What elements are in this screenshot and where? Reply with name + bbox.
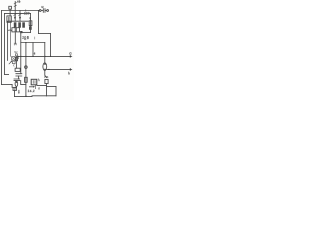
wire below box A [15, 61, 17, 68]
wire left bus V4 [9, 22, 11, 57]
secondary winding box S1 [12, 28, 15, 32]
wire H8 branch [47, 86, 57, 88]
tick on L1 [25, 10, 27, 12]
primary coil bumps [8, 29, 11, 32]
wire top mains line L2 [5, 12, 31, 14]
wire meter to resistor [45, 70, 47, 77]
transformer T1 core line [7, 20, 28, 22]
wire V11 from L1 junction [38, 11, 40, 34]
junction dot bottom [25, 96, 26, 97]
wire H3 [21, 31, 30, 33]
label 220 [24, 12, 29, 14]
transformer T1 top leads [9, 11, 11, 16]
indicator circle on V9 [25, 66, 28, 69]
lamp box with X [12, 57, 16, 61]
wire resistor to bottom bus [46, 84, 48, 96]
label h [38, 79, 39, 81]
wire left bus V3 [7, 22, 9, 61]
label 28 B [23, 36, 29, 40]
capacitor C4 plates [14, 79, 20, 80]
output line H6 [47, 68, 71, 70]
junction blob node B [20, 31, 22, 33]
wire V6 [14, 31, 16, 43]
switch arm arrow [9, 62, 11, 64]
label above connector [42, 6, 44, 8]
terminal arrow T1 [69, 55, 71, 57]
label minus [69, 72, 70, 74]
dark block at V7 bottom [29, 26, 32, 30]
wire V10 drop [32, 43, 34, 57]
tick mark [34, 37, 36, 39]
shunt box R6 [31, 79, 37, 85]
contact box on V6 [16, 54, 18, 56]
label 4 [34, 52, 35, 54]
terminal arrow T2 [69, 68, 71, 70]
wire V9 drop [25, 43, 27, 97]
wire V14 [55, 87, 57, 96]
junction dots [18, 10, 52, 70]
connector X1 (plug o-||-o) [38, 10, 41, 12]
selector arrows [14, 14, 21, 16]
wire left bus V2 [4, 13, 6, 74]
electrolytic C3 (oval) [15, 81, 18, 86]
wire V8 secondary lead [20, 33, 22, 56]
wire left bus V1 [1, 11, 3, 85]
wire V12 [50, 34, 52, 57]
transformer T1 selector box [7, 16, 11, 22]
wire box E to bus [14, 90, 16, 96]
wire drop V7 from L2 [30, 13, 32, 32]
component box B [13, 61, 16, 64]
meter P1 (oval) [43, 63, 47, 71]
wire H10 [2, 84, 13, 86]
label c [13, 65, 14, 67]
wire V15 [11, 85, 13, 88]
selector contact circles [14, 17, 15, 18]
component box E [13, 87, 17, 90]
pointer arrow down [18, 90, 20, 93]
box on V9 [25, 77, 28, 82]
label plus [70, 53, 72, 55]
wire V8 lower [20, 56, 22, 73]
resistor R5 [45, 79, 48, 83]
contact arrow on V6 [15, 43, 16, 44]
input lead with twist marks [14, 2, 16, 17]
capacitor C1 on V7 [29, 21, 32, 26]
capacitor C2 plates [16, 74, 22, 76]
wire H4 secondary line [21, 42, 45, 44]
wire H7 [39, 33, 51, 35]
link wire to V9 [21, 80, 26, 84]
transformer primary winding bars [14, 22, 25, 27]
label 24.2 [28, 90, 34, 92]
label mA [45, 76, 48, 78]
component box A [15, 57, 17, 61]
wire H11 [5, 73, 9, 75]
label eta [18, 57, 19, 59]
secondary winding box S2 [16, 28, 19, 32]
label near V6 [14, 43, 16, 45]
label a [29, 17, 30, 19]
label n [39, 88, 40, 90]
wire below capacitor [18, 76, 20, 79]
wire V13 drop from H4 [44, 43, 46, 63]
bottom bus [15, 95, 57, 98]
label a1 [17, 0, 20, 2]
fuse F1 on L1 [9, 6, 12, 9]
wire H12 link [37, 85, 47, 87]
label omega [14, 51, 17, 52]
output line H5 [16, 55, 70, 57]
wire oval to box E [15, 86, 17, 87]
wire top mains line L1 [2, 10, 39, 12]
resistor R2 [15, 68, 20, 71]
adjuster arrow [30, 86, 34, 88]
